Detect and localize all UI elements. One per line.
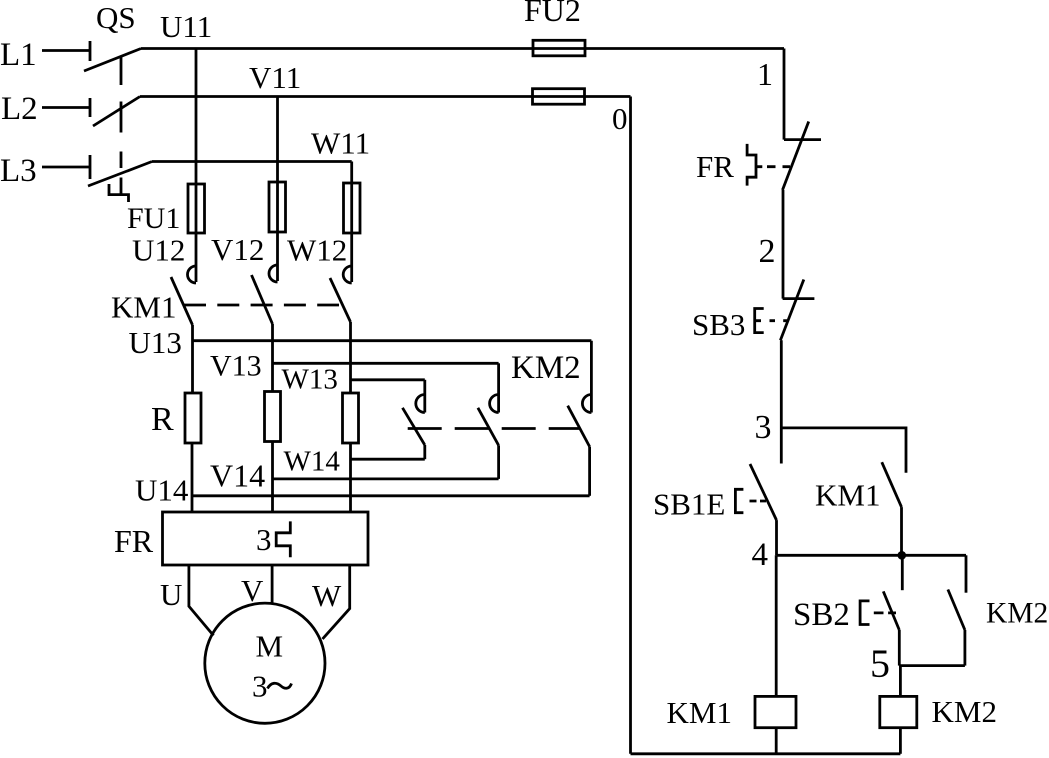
QS pole L3 terminal tick — [89, 155, 92, 179]
wire node 4 row — [777, 554, 967, 557]
svg-text:M: M — [256, 629, 284, 664]
QS handle — [109, 184, 129, 202]
wire KM2 contact 3 bottom drop — [588, 447, 591, 496]
svg-text:W11: W11 — [311, 126, 370, 161]
svg-text:KM1: KM1 — [111, 290, 176, 325]
svg-text:3: 3 — [256, 522, 272, 557]
wire U column below KM1 — [191, 325, 194, 393]
contactor KM2 contact 3 blade — [568, 406, 590, 447]
button SB2 blade — [883, 591, 899, 630]
button SB3 actuator — [755, 309, 764, 333]
svg-text:KM1: KM1 — [815, 478, 880, 513]
QS pole L1 blade — [84, 49, 141, 72]
svg-text:U12: U12 — [132, 233, 185, 268]
svg-text:L3: L3 — [0, 153, 37, 189]
wire KM2 aux to node 5 — [964, 630, 967, 666]
svg-text:1: 1 — [757, 56, 773, 92]
wire V11 row — [140, 95, 533, 98]
wire KM2 coil to bottom rail — [899, 728, 902, 754]
svg-text:U11: U11 — [160, 9, 212, 44]
svg-text:SB2: SB2 — [793, 597, 850, 633]
svg-text:KM1: KM1 — [667, 695, 732, 730]
wire bottom rail — [631, 752, 901, 755]
relay FR trip dashes — [767, 165, 790, 168]
svg-text:5: 5 — [870, 641, 890, 686]
resistor R pole 2 — [265, 392, 281, 442]
svg-text:R: R — [151, 401, 174, 438]
button SB1 actuator dashes — [750, 500, 767, 503]
fuse FU1 pole 1 — [188, 184, 205, 233]
wire motor lead V — [271, 565, 274, 604]
contactor KM2 aux blade — [948, 590, 965, 631]
fuse FU1 pole 3 — [344, 183, 361, 233]
QS pole L1 terminal tick — [89, 41, 92, 61]
resistor R pole 3 — [343, 393, 359, 443]
wire node 4 to KM1 coil — [775, 555, 778, 696]
wire FR to SB3 — [782, 190, 785, 299]
contactor KM1 main contact 2 blade — [252, 275, 273, 324]
svg-text:L1: L1 — [0, 37, 37, 73]
svg-text:V12: V12 — [211, 232, 264, 267]
wire U13 corner drop — [590, 341, 593, 413]
wire top rail to corner — [585, 47, 784, 50]
FR heater element symbol — [276, 521, 290, 557]
wire U14 row — [192, 494, 590, 497]
wire KM1 aux to node 4 — [900, 507, 903, 555]
svg-text:3: 3 — [755, 409, 772, 446]
svg-text:FR: FR — [696, 149, 734, 184]
svg-text:3: 3 — [252, 669, 268, 704]
contactor KM1 main contact 2 fixed terminal — [269, 232, 278, 282]
wire U13 row to KM2 — [193, 339, 592, 342]
wire KM2 aux top stub — [965, 555, 968, 592]
relay FR contact blade — [783, 122, 809, 191]
contactor KM2 contact 1 blade — [403, 408, 425, 445]
contactor KM2 contact 1 hook — [416, 395, 425, 413]
svg-text:V14: V14 — [210, 458, 265, 494]
wire KM2 contact 2 bottom drop — [497, 445, 500, 479]
svg-text:L2: L2 — [1, 91, 38, 127]
wire L2 lead — [42, 106, 90, 109]
wire KM1 coil to bottom rail — [775, 728, 778, 754]
QS pole L2 terminal tick — [89, 98, 92, 117]
svg-text:SB3: SB3 — [692, 307, 745, 342]
button SB1 blade — [750, 464, 777, 520]
button SB2 actuator dashes — [874, 612, 896, 615]
wire SB2 to node 5 — [898, 630, 901, 666]
svg-text:U13: U13 — [129, 325, 182, 360]
fuse FU2 pole 2 — [533, 89, 585, 105]
svg-text:2: 2 — [759, 233, 776, 270]
wire L1 lead — [42, 49, 90, 52]
wire W column drop — [350, 162, 353, 185]
motor tilde mark — [268, 683, 292, 688]
wire V14 row — [273, 477, 499, 480]
button SB2 actuator — [860, 601, 869, 625]
button SB3 contact bar — [783, 297, 815, 300]
fuse FU2 pole 1 — [533, 40, 585, 56]
resistor R pole 1 — [185, 393, 201, 443]
wire right rail down to FR — [783, 49, 786, 140]
svg-text:W: W — [312, 578, 342, 613]
contactor KM1 aux blade — [882, 462, 902, 507]
wire node 3 branch to KM1 aux — [781, 428, 906, 473]
QS pole L2 blade — [93, 97, 140, 127]
svg-text:V13: V13 — [210, 350, 262, 383]
KM2 gang link (dashed) — [408, 427, 580, 430]
wire L3 lead — [42, 166, 90, 169]
wire 0-rail vertical — [629, 97, 632, 754]
svg-text:FR: FR — [114, 523, 154, 559]
wire U11 top row — [141, 47, 533, 50]
contactor KM1 main contact 1 blade — [171, 277, 193, 325]
wire motor lead W — [323, 565, 350, 639]
wire W14 row — [351, 458, 425, 461]
wire W column below KM1 — [349, 322, 352, 393]
wire V13 row to KM2 — [273, 362, 499, 365]
fuse FU1 pole 2 — [269, 182, 286, 232]
wire V column below KM1 — [271, 324, 274, 392]
svg-text:SB1E: SB1E — [653, 487, 725, 522]
svg-text:0: 0 — [612, 101, 628, 136]
wire motor lead U — [189, 565, 214, 636]
relay FR contact bar — [784, 138, 821, 141]
wire SB3 to node 3 — [780, 340, 783, 463]
contactor KM1 main contact 1 fixed terminal — [188, 233, 196, 283]
svg-text:KM2: KM2 — [986, 598, 1048, 630]
contactor KM1 main contact 3 blade — [330, 278, 351, 322]
svg-text:U14: U14 — [135, 473, 189, 508]
svg-text:U: U — [160, 577, 182, 612]
svg-text:QS: QS — [96, 0, 136, 35]
svg-text:4: 4 — [752, 537, 769, 573]
coil KM1 box — [755, 696, 796, 727]
wire U column below R — [191, 443, 194, 512]
svg-text:KM2: KM2 — [932, 694, 997, 729]
wire U column drop — [195, 49, 198, 186]
wire V column drop — [276, 97, 279, 184]
contactor KM1 main contact 3 fixed terminal — [343, 233, 352, 283]
button SB3 blade — [780, 280, 803, 341]
contactor KM2 contact 2 hook — [490, 395, 499, 413]
button SB1 actuator — [735, 489, 743, 512]
contactor KM2 contact 3 hook — [582, 395, 591, 413]
svg-text:V11: V11 — [249, 60, 301, 95]
node 4 junction dot — [898, 551, 907, 560]
svg-text:W12: W12 — [287, 233, 347, 268]
wire node 5 to KM2 coil — [899, 666, 902, 697]
wire W column below R — [349, 443, 352, 512]
wire W13 row to KM2 — [351, 378, 425, 381]
svg-text:KM2: KM2 — [511, 350, 581, 386]
svg-text:W14: W14 — [284, 446, 341, 478]
KM1 gang link (dashed) — [184, 304, 339, 307]
wire W13 corner drop — [423, 380, 426, 413]
coil KM2 box — [880, 696, 917, 727]
svg-text:FU2: FU2 — [524, 0, 581, 28]
svg-text:FU1: FU1 — [127, 202, 180, 235]
relay FR trip symbol — [747, 144, 762, 186]
wire V column below R — [271, 442, 274, 513]
wire W11 row — [152, 160, 352, 163]
wire SB1 to node 4 — [775, 520, 778, 555]
contactor KM2 contact 2 blade — [478, 408, 499, 446]
svg-text:W13: W13 — [282, 364, 338, 396]
motor M circle — [205, 603, 325, 723]
relay FR heater box — [163, 512, 369, 565]
QS gang link (dashed) — [120, 57, 123, 194]
wire KM2 contact 1 bottom drop — [423, 445, 426, 459]
wire SB2 top stub — [901, 555, 904, 590]
wire V13 corner drop — [497, 363, 500, 412]
wire node 5 row — [899, 664, 965, 667]
button SB3 actuator dashes — [770, 319, 788, 322]
QS pole L3 blade — [88, 162, 152, 187]
wire 0-rail horizontal — [585, 95, 631, 98]
